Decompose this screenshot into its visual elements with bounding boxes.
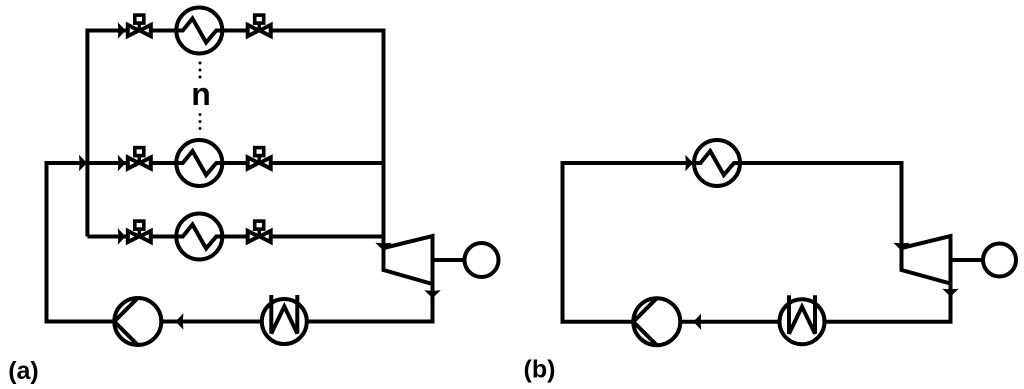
svg-text:n: n bbox=[191, 76, 211, 112]
svg-text:(b): (b) bbox=[524, 356, 556, 384]
svg-text:(a): (a) bbox=[8, 357, 39, 385]
